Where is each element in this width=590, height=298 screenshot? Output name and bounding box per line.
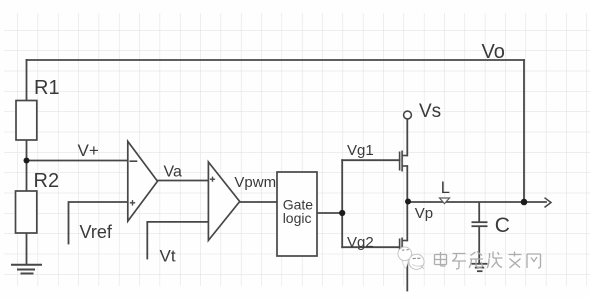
svg-text:Vg1: Vg1 (347, 142, 374, 159)
wire Vref to error amp (69, 202, 128, 244)
minus mark error amp (129, 160, 137, 162)
svg-text:Vpwm: Vpwm (234, 174, 276, 191)
svg-text:Vref: Vref (80, 222, 113, 242)
op-amp error amplifier (128, 141, 158, 221)
svg-text:R1: R1 (34, 77, 60, 99)
wire R1 to R2 through node (26, 140, 28, 191)
svg-text:Vp: Vp (415, 205, 433, 222)
resistor R1 (16, 101, 37, 141)
wire gate logic out to junction (317, 212, 342, 214)
watermark text dianzi fashaoyou wang (435, 252, 541, 270)
comparator PWM (208, 162, 239, 240)
wire Vg2 to Q2 gate (342, 246, 399, 248)
watermark logo bubble 1 (398, 247, 412, 268)
plus mark comparator (210, 177, 215, 182)
wire Vp to output node through L (408, 201, 524, 203)
capacitor C (472, 202, 488, 263)
ground below R2 (11, 265, 42, 274)
svg-text:Vo: Vo (482, 41, 505, 63)
wire node V+ to error amp (27, 160, 138, 162)
svg-text:Va: Va (164, 163, 182, 180)
wire Q2 source down (406, 252, 408, 291)
node junction gate drive (339, 210, 345, 216)
inductor L marker (440, 198, 450, 204)
wire Vt to comparator (147, 222, 215, 259)
watermark logo bubble 2 (409, 254, 424, 269)
wire top rail Vo net (27, 59, 525, 61)
terminal Vs supply circle (404, 111, 412, 119)
svg-text:logic: logic (283, 210, 312, 226)
wire R2 to ground (26, 233, 28, 264)
resistor R2 (16, 191, 37, 233)
wire Vp to Q2 drain (406, 202, 408, 241)
svg-text:L: L (441, 179, 450, 197)
transistor Q2 low side MOSFET (400, 238, 408, 259)
node Vp (405, 199, 411, 205)
wire junction vertical Vg1/Vg2 (341, 160, 343, 247)
wire right vertical Vo drop (523, 60, 525, 202)
wire output arrow stem (524, 201, 546, 203)
wire Vs to Q1 drain (406, 119, 408, 156)
svg-text:Vs: Vs (419, 101, 441, 122)
wire Vpwm comparator to gate logic (240, 201, 277, 203)
svg-text:Vt: Vt (160, 247, 176, 266)
svg-text:Vg2: Vg2 (347, 234, 374, 251)
wire Q1 source to Vp node (406, 166, 408, 202)
wire Va error amp out to comparator (158, 180, 209, 182)
svg-text:C: C (495, 214, 510, 237)
plus mark error amp (130, 200, 135, 205)
svg-text:V+: V+ (78, 141, 99, 160)
output arrowhead (545, 198, 552, 208)
node output (521, 199, 528, 206)
gate logic box (277, 172, 317, 256)
svg-text:R2: R2 (34, 170, 60, 192)
wire left drop to R1 (26, 60, 28, 101)
node V+ feedback junction (24, 158, 30, 164)
wire Vg1 to Q1 gate (342, 159, 399, 161)
transistor Q1 high side MOSFET (400, 151, 408, 172)
ground below capacitor (472, 264, 488, 271)
